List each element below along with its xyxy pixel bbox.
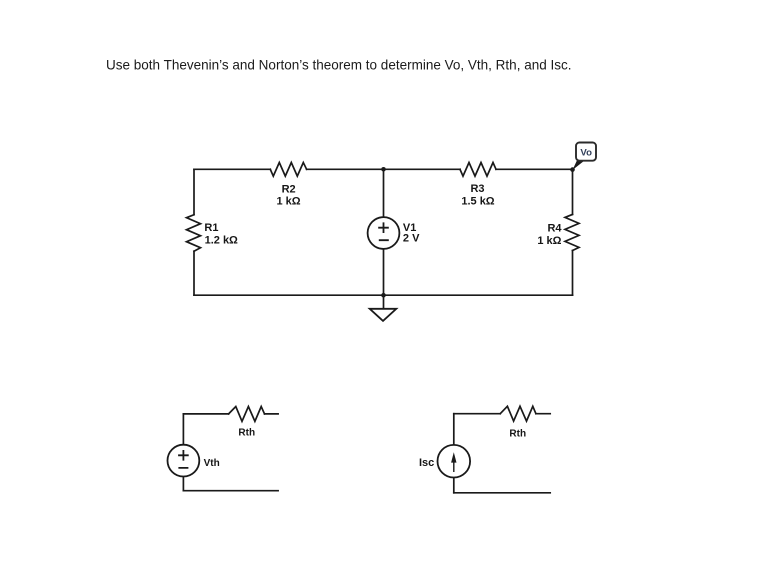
- svg-text:1.2 kΩ: 1.2 kΩ: [205, 234, 238, 246]
- svg-text:Use both Thevenin’s and Norton: Use both Thevenin’s and Norton’s theorem…: [106, 57, 572, 73]
- svg-text:2 V: 2 V: [403, 232, 420, 244]
- svg-text:1.5 kΩ: 1.5 kΩ: [461, 195, 494, 207]
- svg-text:Vth: Vth: [204, 458, 220, 469]
- svg-text:R1: R1: [204, 222, 218, 234]
- svg-text:R3: R3: [470, 183, 484, 195]
- svg-text:Vo: Vo: [580, 148, 592, 159]
- svg-text:Rth: Rth: [509, 429, 526, 440]
- svg-text:1 kΩ: 1 kΩ: [276, 196, 300, 208]
- svg-text:1 kΩ: 1 kΩ: [537, 235, 561, 247]
- svg-text:R4: R4: [547, 222, 562, 234]
- svg-text:Rth: Rth: [238, 428, 255, 439]
- svg-text:R2: R2: [282, 184, 296, 196]
- svg-text:Isc: Isc: [419, 457, 434, 469]
